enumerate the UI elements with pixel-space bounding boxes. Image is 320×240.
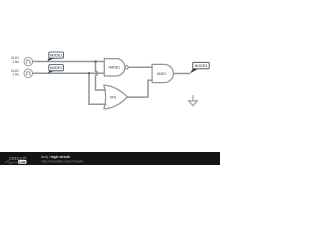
svg-text:NODE2: NODE2 (50, 66, 63, 70)
svg-text:NODE1: NODE1 (50, 54, 63, 58)
svg-text:LAB: LAB (19, 160, 26, 164)
svg-text:AND1: AND1 (157, 72, 166, 76)
svg-text:Anoj / logic circuit: Anoj / logic circuit (41, 155, 71, 159)
svg-text:NODE3: NODE3 (195, 64, 208, 68)
svg-text:NAND1: NAND1 (109, 65, 121, 69)
svg-text:2 Hz: 2 Hz (12, 60, 19, 64)
svg-text:1 Hz: 1 Hz (12, 72, 19, 76)
svg-text:http://circuitlab.com/c7w2wkz: http://circuitlab.com/c7w2wkz (41, 159, 84, 163)
svg-text:OR1: OR1 (110, 96, 117, 100)
